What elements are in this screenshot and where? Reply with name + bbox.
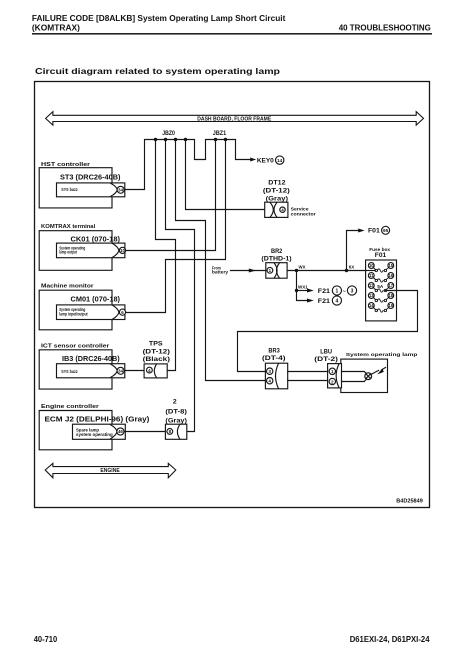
- svg-text:WX: WX: [299, 264, 306, 269]
- dash board / floor frame band arrow: [46, 112, 424, 126]
- svg-text:system operating: system operating: [76, 432, 113, 437]
- pin 3 of BR3: [267, 368, 273, 374]
- svg-text:D61EXI-24, D61PXI-24: D61EXI-24, D61PXI-24: [350, 635, 430, 644]
- junction dot WX1 branch: [295, 269, 298, 272]
- connector 2 body: [165, 424, 186, 439]
- fuse 11-16: [368, 273, 393, 283]
- svg-text:40 TROUBLESHOOTING: 40 TROUBLESHOOTING: [339, 23, 431, 33]
- HST controller outer box: [39, 168, 112, 208]
- svg-text:40-710: 40-710: [34, 635, 58, 644]
- system operating lamp box: [341, 359, 388, 392]
- wire: fuse feed stub inside box: [366, 270, 376, 272]
- svg-text:6X: 6X: [349, 264, 354, 269]
- lamp flash arrow: [371, 367, 386, 374]
- svg-text:(DT-12): (DT-12): [263, 187, 290, 194]
- pin 34 of ST3: [117, 186, 124, 193]
- wire: LBU to lamp upper: [342, 372, 367, 374]
- svg-text:(DT-8): (DT-8): [165, 409, 187, 416]
- engine band arrow: [45, 463, 176, 478]
- connector DT12 body: [265, 202, 288, 217]
- svg-text:JBZ1: JBZ1: [213, 130, 227, 137]
- svg-text:4: 4: [268, 379, 271, 384]
- wire: battery feed to BR2: [231, 270, 266, 272]
- pin 2 of LBU: [329, 378, 335, 384]
- connector BR3 body: [265, 363, 287, 389]
- wire: bus to BR3 pin 4 (lamp signal): [176, 140, 266, 381]
- wire: IB3 pin 34 to TPS pin 4: [124, 370, 144, 372]
- wire WX1 branch: [297, 271, 308, 301]
- pin 4 of DT12: [280, 207, 285, 212]
- diagram border frame: [35, 82, 430, 508]
- svg-text:lamp output: lamp output: [59, 250, 77, 255]
- svg-text:1: 1: [336, 288, 339, 294]
- svg-text:HST controller: HST controller: [41, 162, 91, 168]
- svg-text:BR3: BR3: [268, 348, 280, 355]
- svg-text:(DT-4): (DT-4): [262, 355, 286, 362]
- fuse 14-19: [368, 303, 393, 313]
- wire: JBZ1 to CM01 pin 6: [126, 140, 226, 313]
- svg-text:95: 95: [383, 228, 389, 233]
- KOMTRAX terminal outer box: [39, 231, 112, 271]
- pin 4 of TPS: [147, 367, 153, 373]
- junction dots on bus: [154, 138, 227, 141]
- wire: BR3 to LBU lower: [288, 380, 328, 382]
- connector ST3 body: [57, 183, 125, 197]
- node KEY0 page ref circled 14: [276, 156, 284, 164]
- svg-text:ECM J2 (DELPHI-96) (Gray): ECM J2 (DELPHI-96) (Gray): [45, 414, 150, 423]
- svg-text:CM01 (070-18): CM01 (070-18): [71, 295, 121, 304]
- svg-text:2: 2: [331, 379, 334, 384]
- svg-text:connector: connector: [291, 211, 316, 216]
- wire: bus to TPS (IB3 branch): [156, 140, 176, 371]
- svg-text:WX1: WX1: [298, 285, 308, 290]
- F21 4 callout arrowhead: [307, 299, 314, 303]
- svg-text:IB3 (DRC26-40B): IB3 (DRC26-40B): [62, 354, 120, 363]
- Machine monitor outer box: [39, 290, 112, 330]
- svg-text:Engine controller: Engine controller: [41, 404, 100, 410]
- svg-text:DT12: DT12: [268, 179, 286, 186]
- svg-text:5A: 5A: [377, 284, 384, 289]
- fuse 12-17: [368, 283, 393, 293]
- ICT sensor controller outer box: [39, 350, 112, 389]
- wire WX: BR2 to fuse box F01: [287, 270, 366, 272]
- svg-text:TPS: TPS: [149, 340, 163, 347]
- svg-text:16: 16: [389, 273, 394, 278]
- svg-text:battery: battery: [212, 270, 229, 275]
- pin 10 of CK01: [119, 247, 125, 253]
- svg-text:46: 46: [118, 429, 123, 434]
- F01 page ref circled 95: [382, 226, 390, 234]
- pin 1 of BR2: [267, 267, 273, 273]
- svg-text:BR2: BR2: [271, 248, 283, 255]
- fuse 13-18: [368, 293, 393, 303]
- svg-text:ENGINE: ENGINE: [100, 468, 120, 474]
- svg-text:(Black): (Black): [143, 356, 170, 363]
- wire: F01 callout: [347, 231, 359, 271]
- lamp symbol: [365, 373, 372, 380]
- connector CK01 body: [57, 243, 125, 258]
- Engine controller outer box: [39, 411, 112, 450]
- connector ECM J2 body: [73, 424, 126, 439]
- svg-text:10: 10: [120, 248, 125, 253]
- svg-text:ICT sensor controller: ICT sensor controller: [41, 343, 110, 349]
- svg-text:KEY0: KEY0: [257, 158, 274, 165]
- junction dot F01 branch: [345, 269, 348, 272]
- connector TPS body: [144, 364, 167, 378]
- svg-text:FAILURE CODE [D8ALKB] System O: FAILURE CODE [D8ALKB] System Operating L…: [32, 13, 286, 23]
- svg-text:F21: F21: [318, 288, 331, 295]
- wire: main junction bus from ST3 to KEY0: [125, 140, 251, 190]
- svg-text:19: 19: [389, 303, 394, 308]
- svg-text:LBU: LBU: [320, 349, 332, 356]
- KEY0 callout arrowhead: [250, 158, 256, 162]
- pin 46 of ECM J2: [117, 428, 124, 435]
- svg-text:(DT-12): (DT-12): [143, 348, 170, 355]
- svg-text:(DT-2): (DT-2): [314, 356, 338, 363]
- fuse box F01 body: [366, 260, 397, 321]
- svg-text:34: 34: [118, 369, 123, 374]
- wire: JBZ1 to CK01 pin 10: [126, 140, 216, 251]
- svg-text:SYS buzz: SYS buzz: [61, 369, 77, 374]
- svg-text:17: 17: [389, 283, 394, 288]
- pin 4 of BR3: [267, 378, 273, 384]
- svg-text:(Gray): (Gray): [165, 418, 187, 425]
- wire: bus to DT12 service connector: [186, 140, 265, 210]
- svg-text:15: 15: [389, 263, 394, 268]
- wire: bus to connector 2 (ECM branch): [166, 140, 195, 432]
- pin 34 of IB3: [117, 367, 124, 374]
- wire: LBU to lamp lower: [342, 379, 367, 382]
- svg-text:lamp input/output: lamp input/output: [59, 311, 88, 316]
- wire: F21 1-3 callout: [297, 290, 308, 292]
- svg-text:B4D25849: B4D25849: [396, 499, 423, 505]
- svg-text:34: 34: [118, 188, 123, 193]
- svg-text:System operating lamp: System operating lamp: [346, 352, 418, 357]
- svg-text:18: 18: [389, 293, 394, 298]
- svg-text:F21: F21: [318, 298, 331, 305]
- connector LBU body: [328, 364, 342, 388]
- svg-text:SYS buzz: SYS buzz: [61, 187, 77, 192]
- svg-text:14: 14: [277, 158, 283, 163]
- svg-text:F01: F01: [375, 252, 387, 259]
- svg-text:DASH BOARD, FLOOR FRAME: DASH BOARD, FLOOR FRAME: [197, 116, 271, 122]
- svg-text:(DTHD-1): (DTHD-1): [261, 256, 291, 263]
- pin 6 of CM01: [119, 309, 125, 315]
- svg-text:4: 4: [336, 298, 339, 304]
- svg-text:Machine monitor: Machine monitor: [41, 284, 94, 290]
- svg-text:JBZ0: JBZ0: [162, 130, 175, 137]
- svg-text:(KOMTRAX): (KOMTRAX): [32, 23, 80, 33]
- wire: BR3 to LBU upper: [288, 371, 328, 373]
- svg-text:3: 3: [351, 289, 354, 295]
- connector BR2 body: [266, 263, 287, 279]
- svg-text:CK01 (070-18): CK01 (070-18): [71, 235, 121, 244]
- fuse 10-15: [368, 263, 393, 273]
- wire: ECM pin 46 to connector 2: [124, 431, 165, 433]
- svg-text:3: 3: [268, 369, 271, 374]
- svg-text:ST3 (DRC26-40B): ST3 (DRC26-40B): [60, 172, 121, 181]
- pin 1 of LBU: [329, 368, 335, 374]
- junction dot on WX1: [295, 289, 298, 292]
- connector IB3 body: [57, 364, 125, 378]
- svg-text:F01: F01: [368, 228, 380, 235]
- wire: fuse F01 output to BR3 pin 3: [238, 291, 418, 372]
- pin 8 of connector 2: [167, 429, 173, 435]
- svg-text:Circuit diagram related to sys: Circuit diagram related to system operat…: [35, 66, 280, 76]
- svg-text:1: 1: [331, 369, 334, 374]
- svg-text:KOMTRAX terminal: KOMTRAX terminal: [41, 224, 96, 230]
- header rule: [32, 33, 432, 35]
- connector CM01 body: [57, 305, 125, 320]
- svg-text:2: 2: [173, 399, 177, 406]
- svg-text:(Gray): (Gray): [266, 195, 288, 202]
